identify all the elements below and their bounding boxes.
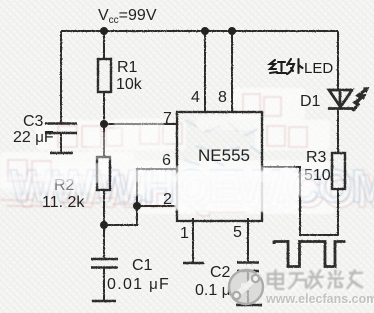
node C rail-pin8: [228, 27, 236, 35]
ground (C2): [236, 304, 262, 307]
wire pin 7: [104, 123, 177, 125]
label R3: [306, 149, 327, 166]
label C3: [23, 113, 44, 130]
ground (C3): [50, 152, 73, 155]
capacitor C2: [237, 263, 259, 305]
capacitor C3: [45, 124, 77, 153]
resistor R1: [98, 59, 111, 92]
wire R1 top: [103, 31, 105, 59]
pin 6: [162, 152, 171, 169]
value 22uF: [13, 129, 54, 146]
wire R1 bottom to node: [103, 92, 105, 124]
wire rail to LED anode: [337, 31, 339, 90]
watermark elecfans logo: [229, 270, 263, 304]
value 0.01uF: [107, 276, 170, 293]
watermark 电子发烧友 text: [268, 270, 365, 291]
label R1: [117, 59, 138, 76]
label NE555: [198, 146, 250, 165]
node E pin2-pin6: [133, 202, 141, 210]
resistor R2: [97, 157, 110, 190]
label D1: [300, 93, 321, 110]
capacitor C1: [91, 259, 118, 300]
pin 2: [163, 191, 172, 208]
value 0.1uF: [195, 282, 230, 299]
wire pin 5 to C2: [247, 218, 249, 262]
node A rail-R1: [100, 27, 108, 35]
ground (C1): [92, 300, 116, 303]
label 红外LED (infrared LED): [270, 59, 303, 74]
wire junction to pins 2,6: [104, 169, 177, 225]
wire pin 8: [231, 31, 233, 112]
watermark wash overlay (over IC area): [0, 116, 314, 212]
wire pin 4: [204, 31, 206, 112]
IC U1 NE555 timer: [177, 112, 262, 221]
value 11.2k: [42, 194, 85, 211]
pin 5: [233, 224, 242, 241]
label C1: [132, 257, 153, 274]
value 510: [304, 167, 331, 184]
waveform annotation: [274, 242, 346, 267]
value 10k: [116, 76, 143, 93]
wire left branch down to C3: [60, 31, 62, 123]
wire Vcc top rail: [61, 30, 338, 32]
node D R1-R2-pin7: [100, 120, 108, 128]
wire node to R2: [103, 124, 105, 157]
label R2: [54, 177, 75, 194]
wire pin 3 output loop: [262, 167, 338, 235]
wire pin 2: [137, 205, 177, 207]
label C2: [210, 264, 231, 281]
watermark www.elecfans.com: [265, 292, 374, 307]
pin 8: [218, 89, 227, 106]
wire R2 bottom to C1: [103, 190, 105, 259]
resistor R3: [332, 153, 345, 189]
LED D1: [328, 90, 353, 109]
node F R2-C1: [100, 221, 108, 229]
wire pin 1 to ground: [192, 218, 194, 262]
ground (pin 1): [183, 262, 204, 265]
label Vcc=99V: [98, 7, 157, 26]
LED D1 emission arrows: [353, 87, 370, 111]
pin 1: [180, 225, 189, 242]
watermark middle band (hqew): [0, 88, 374, 217]
pin 4: [191, 89, 200, 106]
pin 7: [163, 110, 172, 127]
wire R3 top to LED: [337, 109, 339, 154]
node B rail-pin4: [201, 27, 209, 35]
